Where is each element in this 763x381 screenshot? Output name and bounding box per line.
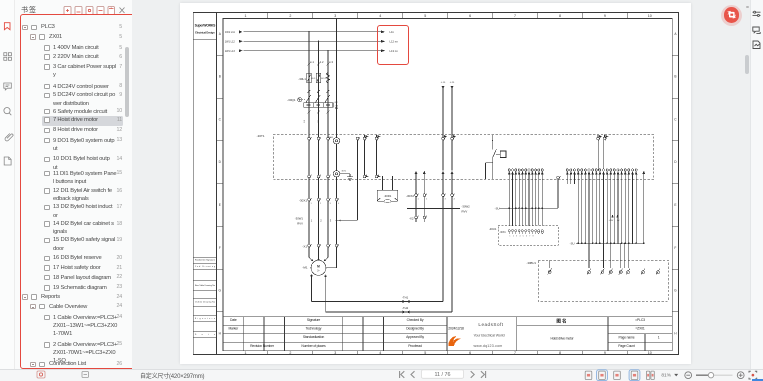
svg-text:D: D <box>674 160 677 164</box>
svg-text:RVV: RVV <box>462 210 468 214</box>
svg-text:8: 8 <box>559 14 561 18</box>
sidebar header mini icons <box>60 6 130 16</box>
svg-text:1W1 L12: 1W1 L12 <box>225 41 236 44</box>
wire: phase drop 1.3 <box>327 51 329 138</box>
svg-text:Page Count: Page Count <box>618 344 635 348</box>
bus -SU (2) <box>576 242 644 244</box>
status bar left icons <box>30 369 150 380</box>
svg-text:Signature: Signature <box>307 318 320 322</box>
contactor K -30Q1 <box>287 98 296 102</box>
TH cable markers <box>402 296 409 311</box>
svg-text:图名: 图名 <box>556 318 567 325</box>
wires bus to -30BU1 <box>550 243 628 268</box>
title block grid <box>223 317 672 351</box>
wire: L1 bus (L11) <box>244 32 382 51</box>
svg-text:Date: Date <box>230 318 237 322</box>
breaker pin ticks <box>308 90 330 93</box>
svg-text:www.dq123.com: www.dq123.com <box>474 344 503 348</box>
sensors inside -30BU1 <box>548 271 551 274</box>
rotated core labels <box>304 119 320 123</box>
PE node circle (top) <box>333 138 339 144</box>
sheet outer border <box>193 13 678 355</box>
earth symbol <box>340 174 353 180</box>
svg-text:Handwritten Signature: Handwritten Signature <box>195 259 215 262</box>
svg-text:1: 1 <box>510 236 511 238</box>
svg-text:6M: 6M <box>335 102 338 104</box>
svg-text:-30W2: -30W2 <box>462 205 471 209</box>
svg-text:1.1: 1.1 <box>310 60 314 64</box>
svg-text:-SU: -SU <box>495 207 500 211</box>
svg-text:1.3: 1.3 <box>329 60 333 64</box>
door switch inside cabinet <box>486 135 507 180</box>
terminal strip -X2 <box>409 217 414 221</box>
svg-text:LeadsSoft: LeadsSoft <box>478 322 503 327</box>
svg-text:B: B <box>674 75 676 79</box>
svg-text:1W1 L11: 1W1 L11 <box>225 31 235 34</box>
svg-text:8: 8 <box>559 351 561 355</box>
svg-text:A: A <box>219 32 222 36</box>
svg-text:2: 2 <box>426 199 427 201</box>
svg-text:6L1.1: 6L1.1 <box>321 78 327 80</box>
svg-text:F: F <box>674 246 676 250</box>
cable -30W1 cores <box>309 201 358 244</box>
svg-text:7: 7 <box>529 236 530 238</box>
svg-text:-30Q1: -30Q1 <box>287 98 296 102</box>
+24V tap arrows <box>611 215 613 218</box>
svg-text:-X1: -X1 <box>302 245 307 249</box>
motor M1 connections <box>309 247 337 268</box>
contactor lower pin ticks <box>308 111 330 114</box>
svg-text:Signature: Signature <box>195 317 215 320</box>
svg-text:-30L1: -30L1 <box>298 77 306 81</box>
svg-text:2: 2 <box>289 14 291 18</box>
left toolbar icons <box>0 0 15 175</box>
svg-text:6: 6 <box>469 351 471 355</box>
svg-text:D: D <box>219 160 222 164</box>
svg-text:3: 3 <box>334 14 336 18</box>
terminal strip -30X2 <box>406 194 414 198</box>
svg-text:-30X2: -30X2 <box>406 194 414 198</box>
wire -TH2 <box>326 311 452 313</box>
svg-text:G: G <box>674 289 677 293</box>
svg-text:-30X1: -30X1 <box>500 232 507 234</box>
node junctions on buses <box>308 31 310 33</box>
svg-text:E: E <box>219 203 221 207</box>
wires group1 to bus <box>499 179 558 208</box>
svg-text:7: 7 <box>514 14 516 18</box>
svg-text:11 / 76: 11 / 76 <box>434 372 450 378</box>
svg-text:8: 8 <box>533 236 534 238</box>
svg-text:0V: 0V <box>617 220 620 222</box>
svg-text:M: M <box>317 265 320 269</box>
svg-text:Checked By: Checked By <box>407 318 424 322</box>
svg-text:3: 3 <box>334 351 336 355</box>
svg-text:Number of places: Number of places <box>301 344 326 348</box>
svg-text:-L25: -L25 <box>450 82 455 84</box>
svg-text:10: 10 <box>648 14 652 18</box>
svg-text:1: 1 <box>245 14 247 18</box>
svg-text:#13: #13 <box>335 106 339 108</box>
svg-text:-30U1: -30U1 <box>489 227 497 231</box>
tap terminal pair C <box>597 137 600 140</box>
bus -SU (1) <box>499 207 558 209</box>
svg-text:6L1.1: 6L1.1 <box>312 78 318 80</box>
cable -30W2 marker line <box>407 197 460 217</box>
svg-text:Hoist drive motor: Hoist drive motor <box>550 336 574 340</box>
svg-text:1: 1 <box>311 203 312 205</box>
wire: phase drop 1.2 <box>318 41 320 137</box>
svg-text:1.2: 1.2 <box>320 60 324 64</box>
svg-text:-30X1: -30X1 <box>299 198 307 202</box>
svg-text:4: 4 <box>379 14 381 18</box>
svg-text:1: 1 <box>418 199 419 201</box>
wires group2 to bus <box>576 184 644 243</box>
SuperWORKS logo box <box>193 13 216 40</box>
plug terminal group 2 (arrows) <box>566 169 568 171</box>
svg-text:=ZX01: =ZX01 <box>635 327 645 331</box>
svg-text:U1: U1 <box>304 119 306 123</box>
svg-text:Designed By: Designed By <box>406 327 424 331</box>
svg-text:1: 1 <box>245 351 247 355</box>
svg-text:-TH1: -TH1 <box>402 296 409 300</box>
svg-text:Standardization: Standardization <box>303 335 325 339</box>
svg-text:Marker: Marker <box>228 327 239 331</box>
svg-text:C: C <box>674 118 677 122</box>
svg-text:10: 10 <box>648 351 652 355</box>
node L11 arrows/labels <box>225 30 398 53</box>
svg-text:6: 6 <box>526 236 527 238</box>
svg-text:+24V: +24V <box>609 220 614 222</box>
svg-text:3: 3 <box>445 199 446 201</box>
svg-text:1: 1 <box>311 219 313 223</box>
left margin label boxes <box>193 257 216 337</box>
motor -M1 <box>311 260 326 275</box>
svg-text:Date: Date <box>195 333 215 336</box>
svg-text:C: C <box>219 118 222 122</box>
resistor -30R1 <box>377 190 397 201</box>
svg-text:4: 4 <box>454 199 455 201</box>
svg-text:Proofread: Proofread <box>408 344 422 348</box>
svg-text:5: 5 <box>424 14 426 18</box>
svg-text:-TH2: -TH2 <box>402 306 409 310</box>
svg-text:1: 1 <box>658 336 660 340</box>
svg-text:-30R1: -30R1 <box>384 194 392 198</box>
svg-text:5: 5 <box>424 351 426 355</box>
title block texts <box>228 318 659 349</box>
wire -TH1 <box>312 301 444 303</box>
sensor box -30BU1 (dashed) <box>538 260 668 301</box>
svg-text:4: 4 <box>379 351 381 355</box>
svg-text:-SU: -SU <box>570 242 575 246</box>
svg-text:9: 9 <box>604 14 606 18</box>
svg-text:H: H <box>674 332 677 336</box>
incoming control wires above cabinet <box>443 89 452 138</box>
svg-text:7: 7 <box>514 351 516 355</box>
svg-text:-30T1: -30T1 <box>257 134 265 138</box>
circuit breaker Q -30L1 <box>307 72 330 83</box>
svg-text:G: G <box>219 289 222 293</box>
terminals on cabinet top edge <box>308 137 311 140</box>
wire: phase drop 1.1 <box>309 19 337 138</box>
svg-text:2: 2 <box>289 351 291 355</box>
svg-text:2: 2 <box>320 219 322 223</box>
cabinet enclosure -30T1 (dashed) <box>273 135 654 180</box>
svg-text:9: 9 <box>604 351 606 355</box>
wires inside cabinet <box>309 140 604 220</box>
svg-text:A: A <box>674 32 677 36</box>
svg-text:Revision Number: Revision Number <box>250 344 275 348</box>
svg-text:-X2: -X2 <box>409 217 414 221</box>
svg-text:F: F <box>219 246 221 250</box>
svg-text:3: 3 <box>516 236 517 238</box>
svg-text:Outline Drawing No: Outline Drawing No <box>195 301 215 304</box>
wires to resistor <box>383 176 393 190</box>
svg-text:81%: 81% <box>661 372 671 378</box>
terminals on cabinet bottom edge <box>308 175 311 178</box>
plug arrows above -30X2 <box>415 171 418 174</box>
tap terminal pair B <box>442 137 445 140</box>
terminals inside -30U1 <box>508 230 510 232</box>
svg-text:3: 3 <box>330 219 332 223</box>
svg-text:Electrical Design: Electrical Design <box>195 30 215 34</box>
red button glyph <box>724 7 739 22</box>
wires bus to -30U1 <box>509 208 542 225</box>
svg-text:RVV: RVV <box>297 222 303 226</box>
svg-text:6: 6 <box>469 14 471 18</box>
svg-text:Approved By: Approved By <box>406 335 424 339</box>
svg-text:SuperWORKS: SuperWORKS <box>195 23 217 27</box>
thermal sensor wires TH <box>312 197 453 313</box>
svg-text:H: H <box>219 332 222 336</box>
svg-text:30S1: 30S1 <box>328 137 334 139</box>
tap terminal pair A <box>363 137 366 140</box>
unit -30U1 (dashed) <box>498 226 558 246</box>
view mode icons <box>580 369 763 381</box>
right panel icons <box>750 0 763 55</box>
lone plug arrow <box>642 171 645 174</box>
svg-text:=PLC3: =PLC3 <box>635 318 645 322</box>
wire: PE conductor <box>336 19 338 138</box>
svg-text:3: 3 <box>330 203 331 205</box>
svg-text:Your Electrical World: Your Electrical World <box>473 334 504 338</box>
svg-text:4: 4 <box>338 203 339 205</box>
svg-text:-L15: -L15 <box>441 82 446 84</box>
svg-text:1W1 L13: 1W1 L13 <box>225 50 236 53</box>
PE node circle (bottom) <box>333 171 339 177</box>
svg-text:4: 4 <box>519 236 520 238</box>
terminal strip -X1 <box>302 245 307 249</box>
svg-text:-30BU1: -30BU1 <box>527 261 537 265</box>
column/row reference ticks <box>217 13 679 355</box>
wires cabinet to -30X1 <box>309 177 337 198</box>
column numbers <box>245 14 652 355</box>
svg-text:Technology: Technology <box>306 327 322 331</box>
svg-text:2: 2 <box>513 236 514 238</box>
plug terminal group 1 (arrows) <box>508 169 510 171</box>
svg-text:30T1: 30T1 <box>342 171 347 173</box>
svg-text:5: 5 <box>523 236 524 238</box>
terminal strip -30X1 <box>299 198 307 202</box>
page navigation <box>395 369 490 380</box>
svg-text:2: 2 <box>320 203 321 205</box>
svg-text:Page name: Page name <box>619 336 635 340</box>
PE branch down arrow <box>335 108 338 111</box>
wire number labels 1.1 1.2 1.3 <box>310 60 333 64</box>
svg-text:-M1: -M1 <box>302 266 307 270</box>
svg-text:-30W1: -30W1 <box>295 217 304 221</box>
svg-text:Cad Drawing: Cad Drawing <box>195 265 215 268</box>
svg-text:New Table Drawing No: New Table Drawing No <box>195 284 215 287</box>
svg-text:B: B <box>219 75 221 79</box>
svg-text:2024/12/18: 2024/12/18 <box>448 327 464 331</box>
svg-text:E: E <box>674 203 676 207</box>
LeadsSoft logo <box>449 322 505 348</box>
row letters <box>219 32 678 336</box>
